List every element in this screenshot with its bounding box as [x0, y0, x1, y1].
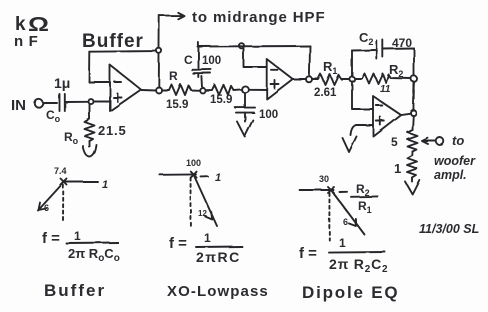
svg-text:k: k — [15, 14, 26, 35]
svg-text:1μ: 1μ — [54, 75, 70, 91]
svg-text:1: 1 — [102, 179, 108, 191]
svg-text:5: 5 — [391, 135, 398, 149]
svg-text:f =: f = — [299, 245, 317, 262]
svg-text:7.4: 7.4 — [54, 166, 67, 176]
svg-text:1: 1 — [74, 229, 81, 243]
svg-text:C2: C2 — [359, 30, 373, 47]
svg-text:XO-Lowpass: XO-Lowpass — [167, 283, 269, 300]
svg-text:IN: IN — [11, 97, 26, 114]
svg-text:11/3/00 SL: 11/3/00 SL — [419, 222, 479, 236]
svg-text:2π R2C2: 2π R2C2 — [329, 256, 388, 275]
svg-text:30: 30 — [319, 174, 329, 184]
svg-text:R2: R2 — [389, 62, 403, 79]
svg-text:to midrange HPF: to midrange HPF — [192, 9, 326, 26]
svg-text:2.61: 2.61 — [314, 87, 337, 99]
svg-text:2π RoCo: 2π RoCo — [68, 246, 120, 264]
svg-text:f =: f = — [169, 235, 187, 252]
svg-text:100: 100 — [186, 158, 201, 168]
svg-text:Buffer: Buffer — [82, 31, 144, 52]
svg-text:6: 6 — [343, 217, 348, 227]
svg-text:R1: R1 — [323, 59, 337, 76]
svg-text:21.5: 21.5 — [98, 123, 127, 138]
svg-text:Co: Co — [46, 108, 61, 124]
svg-text:100: 100 — [202, 55, 221, 67]
svg-text:1: 1 — [339, 236, 346, 250]
svg-text:15.9: 15.9 — [210, 94, 232, 106]
svg-text:nF: nF — [14, 33, 43, 50]
svg-text:Buffer: Buffer — [44, 281, 106, 300]
svg-text:1: 1 — [215, 172, 221, 184]
svg-text:2πRC: 2πRC — [196, 249, 241, 265]
svg-text:12: 12 — [198, 209, 207, 218]
svg-text:1: 1 — [204, 231, 211, 245]
svg-text:Ro: Ro — [64, 130, 79, 146]
svg-text:R2: R2 — [356, 182, 370, 198]
svg-text:R1: R1 — [358, 199, 372, 215]
svg-text:f =: f = — [42, 230, 60, 247]
svg-text:C: C — [184, 53, 193, 67]
svg-text:ampl.: ampl. — [434, 168, 467, 182]
svg-text:15.9: 15.9 — [166, 99, 188, 111]
svg-text:woofer: woofer — [434, 154, 476, 168]
svg-text:470: 470 — [392, 36, 412, 50]
svg-text:Dipole EQ: Dipole EQ — [302, 283, 399, 302]
svg-text:R: R — [169, 69, 178, 83]
svg-text:1: 1 — [394, 161, 401, 176]
svg-text:to: to — [452, 133, 464, 148]
svg-text:6: 6 — [44, 203, 49, 213]
svg-text:100: 100 — [259, 109, 278, 121]
svg-text:11: 11 — [380, 84, 391, 95]
